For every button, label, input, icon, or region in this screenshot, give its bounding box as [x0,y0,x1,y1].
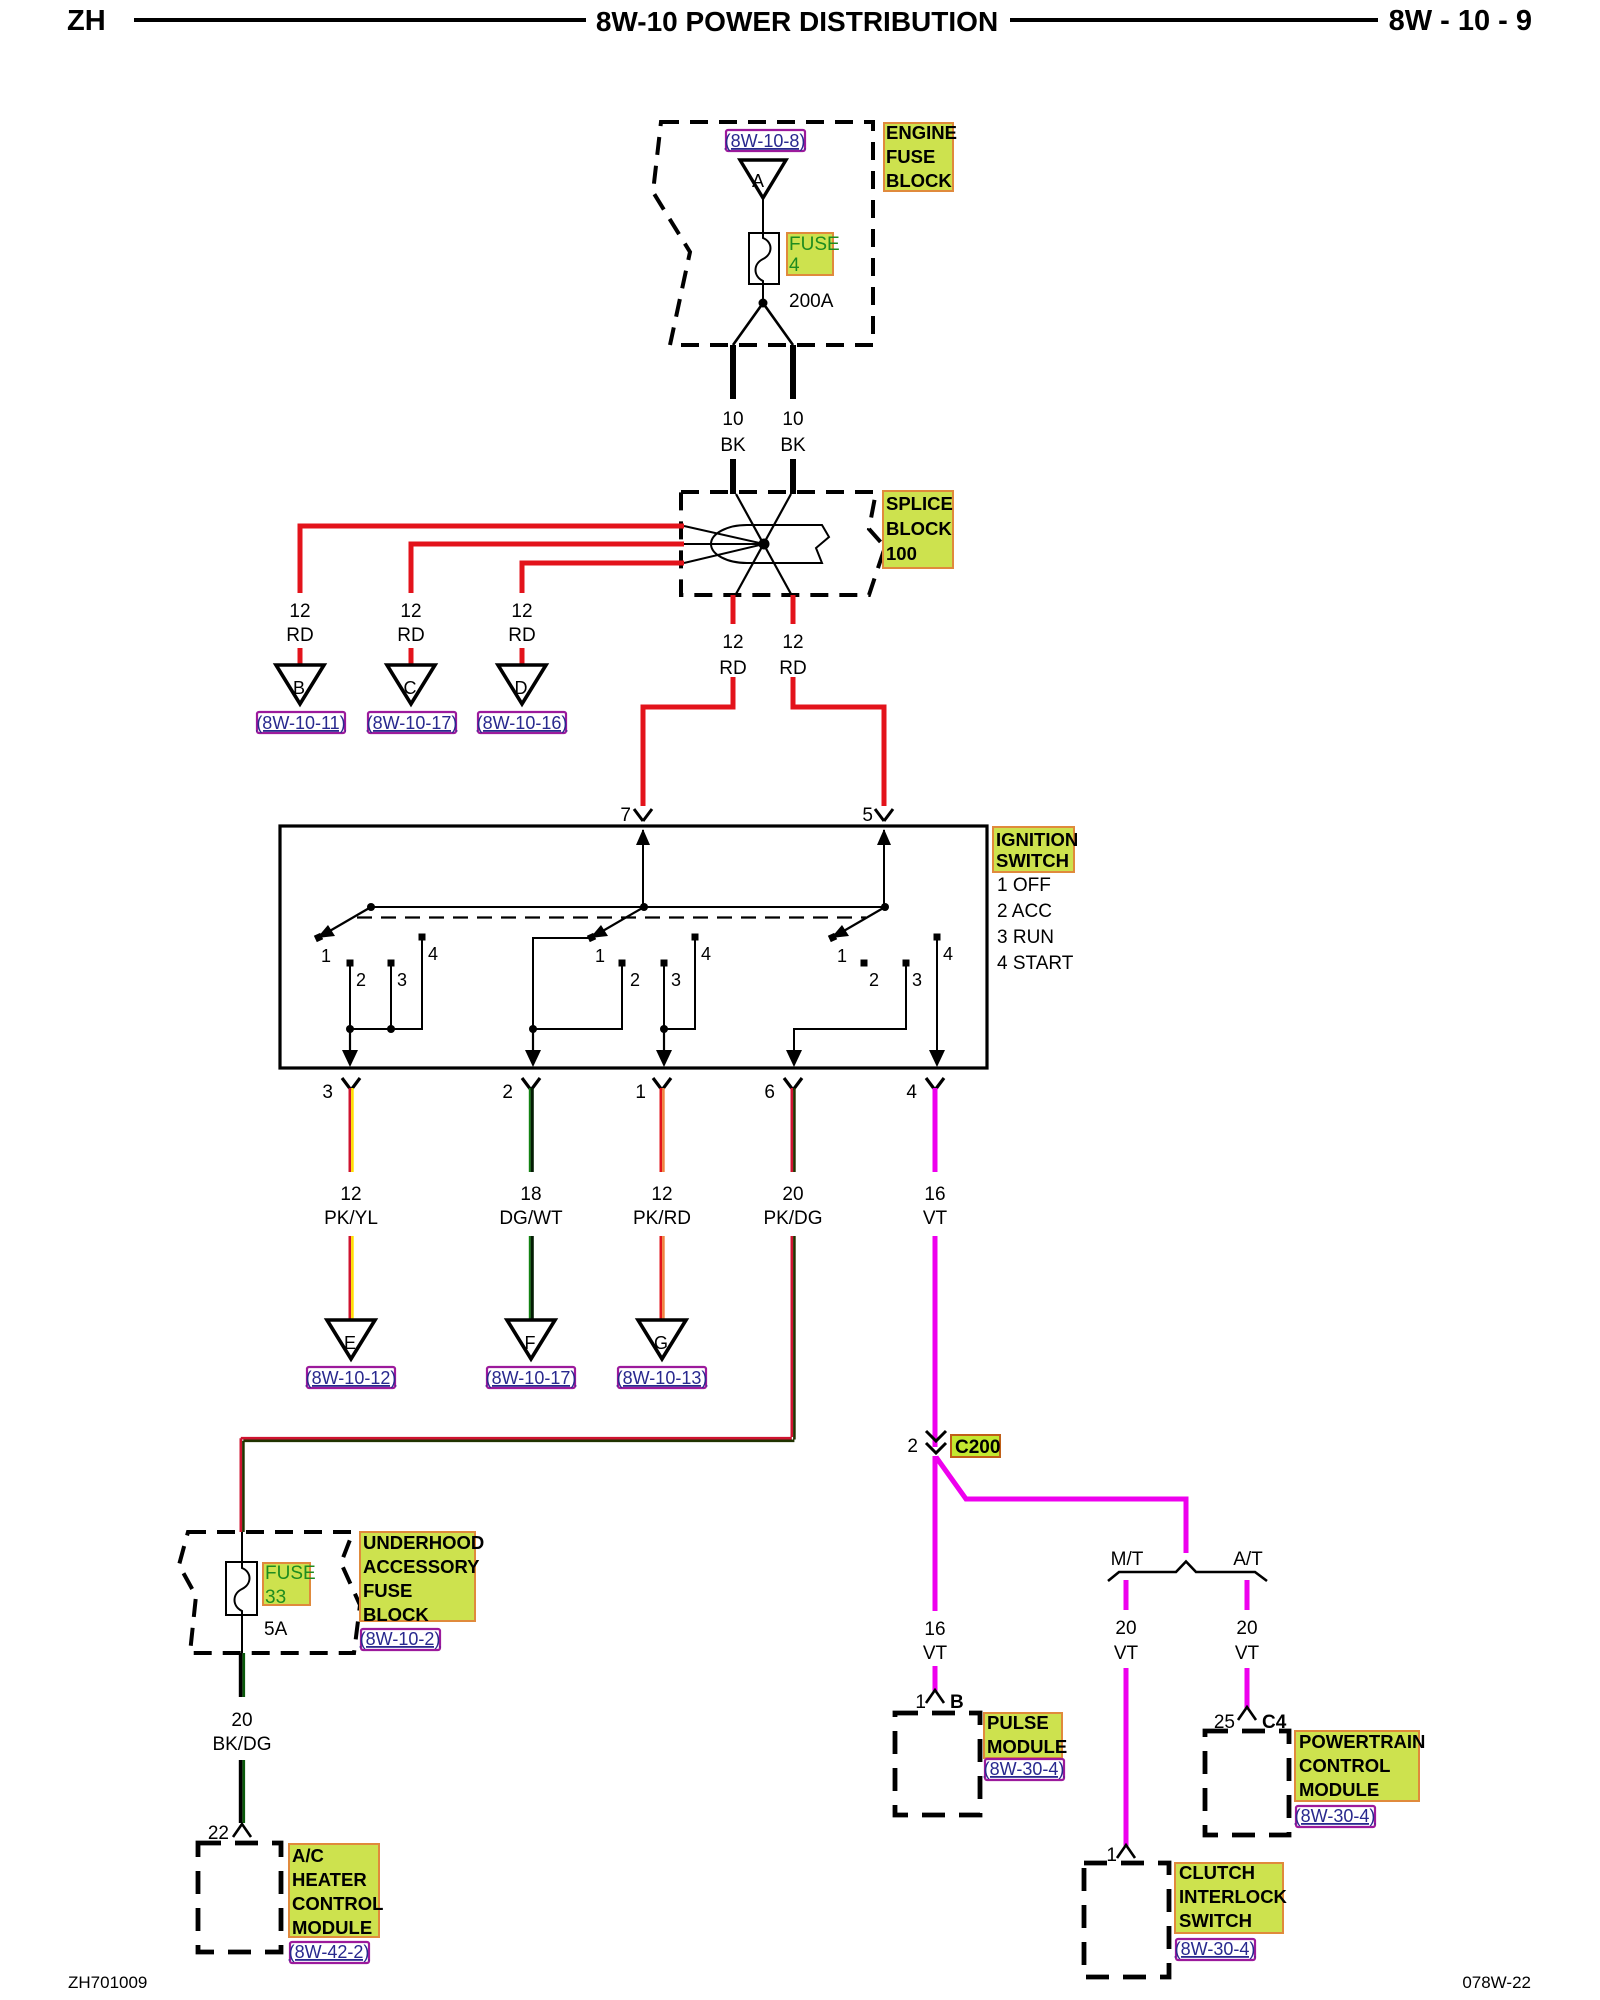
svg-text:MODULE: MODULE [292,1917,372,1938]
svg-text:10: 10 [782,409,803,430]
wire 10 BK right lower [790,459,796,494]
svg-text:12: 12 [722,632,743,653]
svg-text:(8W-10-11): (8W-10-11) [256,713,345,733]
svg-text:1: 1 [915,1692,926,1713]
label A/C HEATER CONTROL MODULE [289,1844,379,1937]
bank3 contact 4 [692,934,699,941]
link (8W-42-2) [290,1942,369,1963]
svg-text:PK/YL: PK/YL [324,1208,378,1229]
svg-text:MODULE: MODULE [1299,1779,1379,1800]
svg-text:(8W-30-4): (8W-30-4) [1175,1939,1256,1959]
svg-text:RD: RD [508,625,535,646]
wire stub to triangle C [409,648,414,669]
svg-text:18: 18 [520,1184,541,1205]
label FUSE 4 [787,233,833,275]
fuse F4 body [749,233,779,284]
connector triangle E [327,1320,375,1359]
svg-text:1: 1 [635,1082,646,1103]
bank2 contact 2 [619,960,626,967]
common bus bar [371,906,884,908]
svg-text:B: B [293,678,305,698]
bank4 contact 3 [903,960,910,967]
svg-text:3: 3 [397,970,407,990]
svg-text:7: 7 [620,805,631,826]
svg-text:16: 16 [924,1184,945,1205]
bank3 output arrow [663,1029,665,1053]
svg-text:3: 3 [322,1082,333,1103]
wire 20 VT to clutch interlock [1124,1668,1129,1846]
svg-text:12: 12 [340,1184,361,1205]
wire A to fuse [762,198,764,233]
svg-text:RD: RD [286,625,313,646]
svg-text:8W - 10 - 9: 8W - 10 - 9 [1389,5,1532,37]
svg-text:ENGINE: ENGINE [886,122,957,143]
svg-text:PK/RD: PK/RD [633,1208,691,1229]
link (8W-30-4) pcm [1296,1806,1375,1827]
svg-text:CONTROL: CONTROL [1299,1755,1390,1776]
svg-text:1: 1 [1106,1845,1117,1866]
svg-text:12: 12 [400,601,421,622]
bank2 output arrow [532,1029,534,1053]
svg-text:(8W-10-13): (8W-10-13) [617,1368,708,1388]
svg-text:33: 33 [265,1587,286,1608]
wire below fuse 33 [241,1615,243,1653]
svg-text:(8W-10-17): (8W-10-17) [367,713,458,733]
svg-text:IGNITION: IGNITION [996,829,1078,850]
svg-text:5: 5 [862,805,873,826]
connector triangle F [507,1320,555,1359]
pin 7 connector [634,809,652,821]
pin 5 connector [875,809,893,821]
svg-text:SPLICE: SPLICE [886,493,953,514]
svg-text:4: 4 [906,1082,917,1103]
wire 12 PK/YL upper [348,1088,351,1172]
wire 20 VT A/T stub [1245,1580,1250,1610]
ignition switch box [280,826,987,1068]
svg-text:(8W-42-2): (8W-42-2) [289,1942,370,1962]
IGNITION SWITCH [280,805,1078,1103]
svg-text:2 ACC: 2 ACC [997,901,1052,922]
svg-text:2: 2 [502,1082,513,1103]
svg-text:C200: C200 [955,1437,1000,1458]
wire stub to triangle B [298,648,303,669]
link (8W-10-13) [618,1367,706,1388]
wire 12 PK/RD lower [659,1236,662,1322]
svg-text:(8W-10-2): (8W-10-2) [360,1629,441,1649]
label SPLICE BLOCK 100 [883,491,953,568]
connector C200 symbol [926,1431,946,1453]
wire 20 PK/DG horizontal to fuse block [241,1437,792,1440]
bank3 wiring [664,937,695,1029]
wire split to two feeds [733,303,793,345]
svg-text:VT: VT [1235,1643,1260,1664]
svg-text:(8W-10-16): (8W-10-16) [477,713,568,733]
svg-text:2: 2 [630,970,640,990]
connector triangle A [740,160,786,198]
wire 20 BK/DG lower [239,1760,243,1823]
wire VT branch to M/T A/T bracket [936,1457,1186,1553]
wire 10 BK left upper [730,345,736,399]
svg-text:B: B [950,1692,964,1713]
svg-text:4: 4 [428,944,438,964]
svg-text:1 OFF: 1 OFF [997,875,1051,896]
bank1 contact 4 [419,934,426,941]
splice clip outline [711,525,829,563]
svg-text:4: 4 [789,255,800,276]
wire 12 RD branch B horizontal [300,526,684,593]
pin 25 connector [1238,1707,1256,1720]
wire 12 PK/RD upper [659,1088,662,1172]
svg-text:F: F [525,1333,536,1353]
link (8W-30-4) pulse [985,1759,1064,1780]
svg-text:DG/WT: DG/WT [499,1208,563,1229]
OUTPUT WIRES [241,1088,948,1532]
svg-text:(8W-10-12): (8W-10-12) [306,1368,397,1388]
wire into fuse 33 [241,1532,243,1562]
header rule left [134,18,586,22]
bank3 contact 3 [661,960,668,967]
bank1 contact 3 [388,960,395,967]
link (8W-10-11) [257,712,345,733]
svg-text:BK/DG: BK/DG [212,1734,271,1755]
wire 16 VT below C200 to pulse module [933,1456,938,1611]
wire 12 PK/YL lower [348,1236,351,1322]
splice feed line upper [684,526,764,544]
svg-text:CLUTCH: CLUTCH [1179,1862,1255,1883]
svg-text:8W-10 POWER DISTRIBUTION: 8W-10 POWER DISTRIBUTION [596,6,998,37]
link (8W-10-17) [368,712,456,733]
svg-text:MODULE: MODULE [987,1736,1067,1757]
svg-text:FUSE: FUSE [363,1580,412,1601]
svg-text:RD: RD [397,625,424,646]
splice feed line lower [684,544,764,563]
svg-text:C: C [404,678,417,698]
link (8W-10-16) [478,712,566,733]
svg-text:2: 2 [869,970,879,990]
svg-text:A: A [752,171,764,191]
svg-text:E: E [344,1333,356,1353]
wire 16 VT lower [933,1666,938,1691]
svg-text:BLOCK: BLOCK [886,170,952,191]
svg-text:ACCESSORY: ACCESSORY [363,1556,480,1577]
svg-text:4: 4 [943,944,953,964]
M/T A/T selector bracket [1108,1562,1267,1582]
svg-text:FUSE: FUSE [789,234,840,255]
svg-text:20: 20 [231,1710,252,1731]
svg-text:3: 3 [671,970,681,990]
bank1 output arrow [349,1029,351,1053]
svg-text:3 RUN: 3 RUN [997,927,1054,948]
svg-text:16: 16 [924,1619,945,1640]
wire 20 BK/DG upper [239,1653,243,1697]
bank1 contact 2 [347,960,354,967]
svg-text:4 START: 4 START [997,953,1074,974]
link (8W-10-2) [361,1629,440,1650]
bank4 contact 4 [934,934,941,941]
FOOTER [68,1973,1531,1992]
svg-text:FUSE: FUSE [886,146,935,167]
svg-text:1: 1 [595,946,605,966]
A/C heater control module dashed box [198,1843,281,1952]
underhood accessory fuse block dashed outline [179,1532,360,1653]
fuse F33 element [235,1562,250,1615]
svg-text:12: 12 [511,601,532,622]
link (8W-30-4) clutch [1176,1939,1255,1960]
pulse module dashed box [895,1713,980,1815]
splice node S100 [759,539,770,550]
powertrain control module dashed box [1205,1731,1289,1835]
svg-text:G: G [654,1333,668,1353]
wire 20 PK/DG long run [790,1236,793,1437]
junction below fuse [762,284,764,303]
wiper arrow bank4 [842,907,885,932]
pivot node right [881,903,889,911]
wire 18 DG/WT upper [529,1088,531,1172]
svg-text:PULSE: PULSE [987,1712,1049,1733]
svg-text:BLOCK: BLOCK [886,518,952,539]
wiper arrow bank2 [601,907,644,932]
header rule right [1010,18,1378,22]
wire 10 BK right upper [790,345,796,399]
svg-text:ZH: ZH [67,5,106,37]
wire 20 VT M/T stub [1124,1580,1129,1610]
svg-text:12: 12 [782,632,803,653]
label FUSE 33 [263,1563,310,1605]
label POWERTRAIN CONTROL MODULE [1295,1731,1419,1801]
pivot node center [640,903,648,911]
wire 18 DG/WT lower [529,1236,531,1322]
link (8W-10-17) [487,1367,575,1388]
label C200 [951,1435,1000,1457]
svg-text:D: D [515,678,528,698]
svg-text:RD: RD [719,658,746,679]
wire 12 RD stub right-down [791,595,796,624]
link (8W-10-8) [726,130,805,151]
svg-text:CONTROL: CONTROL [292,1893,383,1914]
label CLUTCH INTERLOCK SWITCH [1175,1863,1283,1933]
svg-text:HEATER: HEATER [292,1869,367,1890]
pin 22 connector [233,1824,251,1837]
svg-text:VT: VT [923,1208,948,1229]
pivot node left [367,903,375,911]
svg-text:A/T: A/T [1233,1549,1263,1570]
splice block 100 dashed outline [681,492,885,595]
svg-text:078W-22: 078W-22 [1462,1973,1531,1992]
wire 12 RD stub left-down [731,595,736,624]
wire 12 RD to pin 7 [643,677,733,806]
HEADER [67,5,1532,37]
splice X wire top-right to bottom-left [736,494,791,594]
svg-text:PK/DG: PK/DG [763,1208,822,1229]
wire 20 PK/DG down to fuse 33 [240,1438,243,1532]
wiper arrow bank1 [328,907,371,932]
svg-text:POWERTRAIN: POWERTRAIN [1299,1731,1425,1752]
LOWER LEFT [179,1532,484,1963]
svg-text:20: 20 [782,1184,803,1205]
pin 1 connector pulse [926,1690,944,1703]
svg-text:INTERLOCK: INTERLOCK [1179,1886,1288,1907]
svg-text:(8W-10-17): (8W-10-17) [486,1368,577,1388]
svg-text:SWITCH: SWITCH [996,850,1069,871]
svg-text:6: 6 [764,1082,775,1103]
svg-text:BK: BK [720,435,746,456]
splice feed line middle [684,543,764,545]
svg-text:1: 1 [837,946,847,966]
svg-text:1: 1 [321,946,331,966]
svg-text:2: 2 [907,1436,918,1457]
bank2 wiring [533,938,622,1029]
wire 20 VT to PCM [1245,1668,1250,1708]
svg-text:(8W-10-8): (8W-10-8) [725,131,806,151]
svg-text:A/C: A/C [292,1845,324,1866]
label UNDERHOOD ACCESSORY FUSE BLOCK [360,1532,475,1621]
wire 10 BK left lower [730,459,736,494]
label IGNITION SWITCH [993,827,1074,872]
svg-text:BK: BK [780,435,806,456]
SPLICE BLOCK [300,491,953,806]
svg-text:10: 10 [722,409,743,430]
bank4 contact 2 dot [861,960,868,967]
svg-text:5A: 5A [264,1619,288,1640]
feed wire pin 7 internal [642,830,644,907]
connector triangle D [498,665,546,704]
svg-text:20: 20 [1115,1618,1136,1639]
svg-text:UNDERHOOD: UNDERHOOD [363,1532,484,1553]
wire 12 RD branch C horizontal [411,544,684,593]
pin 1 connector clutch [1117,1845,1135,1858]
fuse F4 element [756,233,771,284]
label PULSE MODULE [984,1713,1062,1758]
svg-text:12: 12 [289,601,310,622]
svg-text:3: 3 [912,970,922,990]
LEFT TRIANGLES [256,601,567,733]
svg-text:FUSE: FUSE [265,1563,316,1584]
svg-text:VT: VT [1114,1643,1139,1664]
svg-text:200A: 200A [789,291,834,312]
engine fuse block dashed outline [653,122,873,345]
wire stub to triangle D [520,648,525,669]
connector triangle C [387,665,435,704]
svg-text:12: 12 [651,1184,672,1205]
wire 12 RD to pin 5 [793,677,884,806]
svg-text:100: 100 [886,543,917,564]
bank4 wiring start contact [936,937,938,1053]
clutch interlock switch dashed box [1084,1863,1169,1977]
bank4 wiring run-start [794,963,906,1053]
svg-text:SWITCH: SWITCH [1179,1910,1252,1931]
connector triangle G [638,1320,686,1359]
svg-text:ZH701009: ZH701009 [68,1973,147,1992]
label ENGINE FUSE BLOCK [884,123,953,191]
LOWER RIGHT [895,1431,1425,1977]
bank1 wiring [350,937,422,1029]
wire 16 VT upper [933,1088,938,1172]
svg-text:4: 4 [701,944,711,964]
svg-text:2: 2 [356,970,366,990]
svg-text:VT: VT [923,1643,948,1664]
svg-text:RD: RD [779,658,806,679]
wire 12 RD branch D horizontal [522,563,684,593]
svg-text:(8W-30-4): (8W-30-4) [1295,1806,1376,1826]
svg-text:20: 20 [1236,1618,1257,1639]
svg-text:BLOCK: BLOCK [363,1604,429,1625]
wire 16 VT to C200 [933,1236,938,1447]
wire 20 PK/DG upper [790,1088,793,1172]
splice X wire top-left to bottom-right [736,494,791,594]
mechanical linkage dashed [357,916,866,918]
ENGINE FUSE BLOCK [653,122,957,494]
connector triangle B [276,665,324,704]
fuse F33 body [226,1562,257,1615]
feed wire pin 5 internal [883,830,885,907]
svg-text:(8W-30-4): (8W-30-4) [984,1759,1065,1779]
link (8W-10-12) [307,1367,395,1388]
svg-text:M/T: M/T [1111,1549,1144,1570]
